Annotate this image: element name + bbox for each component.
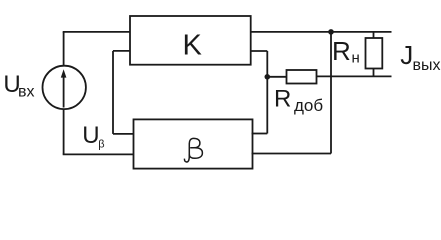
svg-text:вх: вх: [18, 84, 35, 101]
svg-text:R: R: [274, 85, 291, 112]
svg-text:U: U: [82, 122, 99, 149]
svg-text:н: н: [352, 50, 360, 67]
svg-text:β: β: [98, 138, 104, 150]
svg-text:доб: доб: [294, 96, 323, 115]
svg-text:R: R: [332, 36, 351, 66]
svg-text:K: K: [183, 30, 203, 62]
svg-text:J: J: [400, 40, 413, 70]
svg-text:вых: вых: [413, 57, 441, 74]
